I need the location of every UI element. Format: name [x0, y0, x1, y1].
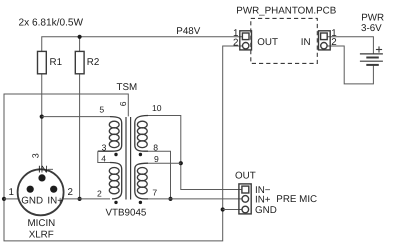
node junction R2 xlr2	[78, 197, 82, 201]
svg-text:4: 4	[101, 153, 106, 163]
svg-text:GND: GND	[21, 195, 43, 206]
wire xlr pin2 to transformer pin2	[63, 198, 110, 200]
XLR contact pin 1 GND	[27, 186, 34, 193]
svg-text:8: 8	[153, 142, 158, 152]
wire battery bottom	[327, 46, 373, 84]
polarity dot winding 4	[114, 153, 117, 156]
svg-text:OUT: OUT	[235, 171, 256, 182]
transformer winding 4-2	[109, 163, 121, 199]
connector IN 2pin	[319, 31, 331, 50]
wire to pin 5	[42, 116, 110, 118]
resistor R1	[38, 51, 47, 73]
wire gnd to connector	[223, 209, 242, 211]
transformer winding 5-3	[98, 117, 122, 152]
transformer TSM core line left	[125, 117, 127, 200]
wire shield box	[4, 46, 242, 241]
wire battery top	[327, 37, 373, 54]
svg-text:9: 9	[154, 154, 159, 164]
XLR contact pin 2 IN+	[50, 186, 57, 193]
svg-text:2x 6.81k/0.5W: 2x 6.81k/0.5W	[19, 18, 84, 29]
connector XLR circle	[18, 169, 64, 215]
svg-text:R1: R1	[50, 57, 63, 68]
svg-text:GND: GND	[255, 205, 277, 216]
svg-text:IN+: IN+	[47, 195, 63, 206]
wire pin9	[148, 162, 181, 164]
svg-text:1: 1	[9, 187, 14, 198]
svg-text:2: 2	[331, 37, 336, 48]
battery PWR	[360, 46, 383, 65]
node junction pin5	[40, 115, 44, 119]
svg-text:VTB9045: VTB9045	[106, 208, 147, 219]
transformer TSM core line right	[130, 117, 132, 200]
battery plus sign	[376, 49, 382, 51]
svg-text:5: 5	[99, 105, 104, 115]
resistor R2	[75, 51, 84, 73]
wire pin10 down	[148, 116, 242, 190]
transformer winding 10-8	[135, 116, 148, 152]
wire pin7 to IN+	[148, 198, 242, 200]
XLR contact pin 3 IN-	[38, 174, 45, 181]
polarity dot winding 7	[139, 201, 142, 204]
svg-text:OUT: OUT	[257, 37, 278, 48]
module PWR_PHANTOM.PCB dashed box	[251, 18, 317, 63]
polarity dot winding 9	[139, 153, 142, 156]
svg-text:10: 10	[152, 103, 162, 113]
wire pin3 to pin4	[98, 151, 110, 162]
node junction shield xlr1	[2, 197, 6, 201]
node junction shield gnd	[221, 207, 225, 211]
svg-text:IN+: IN+	[255, 195, 271, 206]
svg-text:IN−: IN−	[38, 165, 54, 176]
wire R2 bottom	[79, 74, 81, 199]
svg-text:PWR: PWR	[361, 12, 384, 23]
svg-text:PRE MIC: PRE MIC	[276, 194, 317, 205]
svg-text:3: 3	[31, 153, 41, 158]
wire R1 bottom to XLR pin3	[41, 74, 43, 170]
svg-text:2: 2	[233, 37, 238, 48]
svg-text:2: 2	[68, 187, 73, 198]
svg-text:3: 3	[102, 142, 107, 152]
wire R2 top	[79, 37, 81, 52]
wire P48V net top	[42, 37, 243, 52]
connector OUT 2pin	[240, 31, 252, 50]
svg-text:6: 6	[118, 101, 128, 106]
svg-text:PWR_PHANTOM.PCB: PWR_PHANTOM.PCB	[236, 5, 336, 16]
svg-text:IN: IN	[301, 37, 311, 48]
svg-text:TSM: TSM	[117, 82, 138, 93]
svg-text:P48V: P48V	[176, 26, 200, 37]
node junction pin9 pin10	[179, 161, 183, 165]
svg-text:7: 7	[152, 188, 157, 198]
wire xlr pin1	[4, 198, 19, 200]
svg-text:2: 2	[97, 189, 102, 199]
node junction pin8 pin7	[168, 197, 172, 201]
polarity dot winding 2	[114, 201, 117, 204]
wire pin8 down	[148, 151, 171, 199]
svg-text:XLRF: XLRF	[29, 229, 54, 240]
svg-text:MICIN: MICIN	[28, 218, 56, 229]
node junction R1R2	[78, 35, 82, 39]
svg-text:3-6V: 3-6V	[361, 23, 382, 34]
connector OUT 3pin	[239, 184, 251, 214]
transformer winding 9-7	[135, 163, 148, 199]
svg-text:R2: R2	[87, 57, 100, 68]
